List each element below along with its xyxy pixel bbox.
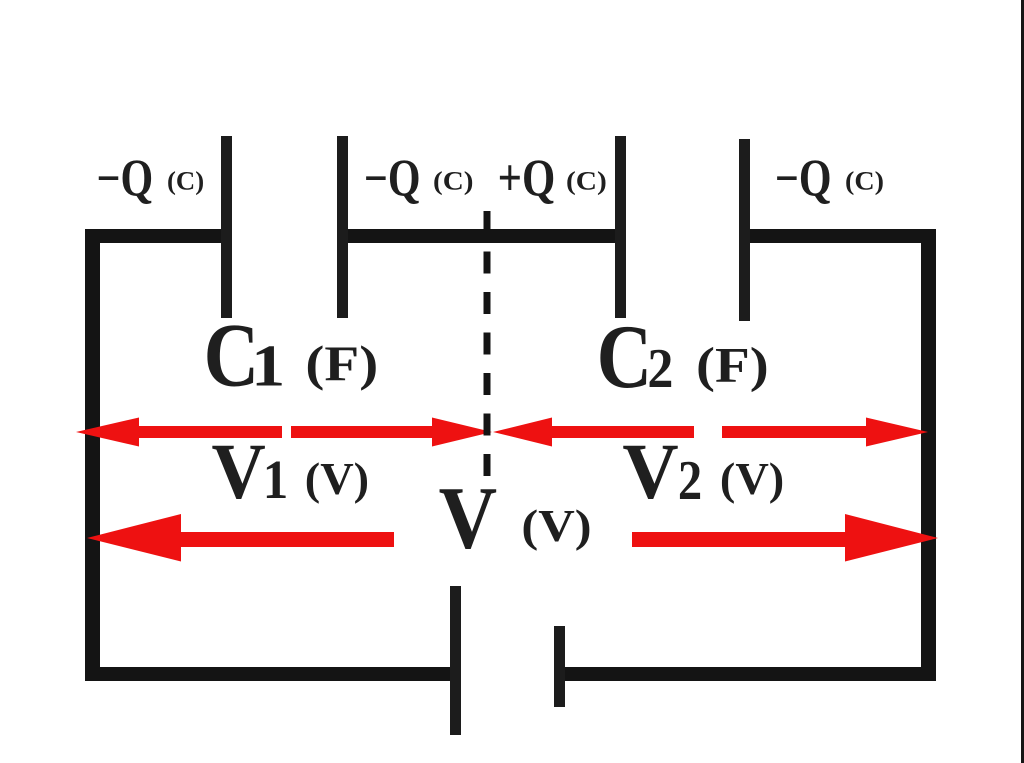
svg-text:1: 1 <box>251 333 285 399</box>
arrow V1 left half <box>76 418 282 447</box>
svg-text:(C): (C) <box>167 166 204 196</box>
svg-text:(C): (C) <box>566 167 607 196</box>
svg-text:−Q: −Q <box>775 150 832 207</box>
wire: top segment right (C2 right plate to right wire) <box>745 229 936 243</box>
svg-text:(C): (C) <box>433 167 473 196</box>
wire: left vertical <box>85 229 100 681</box>
right edge dark stripe <box>1021 0 1024 763</box>
wire: bottom segment left (to battery plus plate) <box>85 667 455 681</box>
svg-text:C: C <box>597 307 653 408</box>
wire: right vertical <box>921 229 936 681</box>
svg-text:2: 2 <box>678 450 702 512</box>
svg-text:−Q: −Q <box>364 150 421 207</box>
node divider dashed line <box>484 211 491 477</box>
svg-text:2: 2 <box>647 337 673 399</box>
svg-text:+Q: +Q <box>498 149 556 207</box>
capacitor C1 left plate <box>221 136 232 318</box>
capacitor C2 left plate <box>615 136 626 318</box>
arrow V left <box>87 514 394 562</box>
svg-text:(V): (V) <box>305 454 369 504</box>
arrow V right <box>632 514 938 562</box>
svg-text:1: 1 <box>263 448 289 510</box>
arrow V2 right half <box>722 418 928 447</box>
battery V short plate (-) <box>554 626 565 707</box>
capacitor C1 right plate <box>337 136 348 318</box>
svg-text:(F): (F) <box>696 337 769 393</box>
svg-text:(C): (C) <box>845 166 884 195</box>
capacitor C2 right plate <box>739 139 750 321</box>
svg-text:(V): (V) <box>720 454 784 504</box>
wire: bottom segment right (battery minus plate to right wire) <box>560 667 936 681</box>
wire: top segment middle (C1 right plate to C2 left plate) <box>343 229 620 243</box>
battery V long plate (+) <box>450 586 461 735</box>
arrow V2 left half <box>493 418 694 447</box>
wire: top segment left (to C1 left plate) <box>85 229 226 243</box>
svg-text:(V): (V) <box>521 501 591 551</box>
svg-text:V: V <box>622 428 678 516</box>
svg-text:−Q: −Q <box>97 150 154 207</box>
svg-text:V: V <box>212 427 266 515</box>
svg-text:V: V <box>439 469 497 568</box>
svg-text:(F): (F) <box>305 335 378 391</box>
arrow V1 right half <box>291 418 492 447</box>
